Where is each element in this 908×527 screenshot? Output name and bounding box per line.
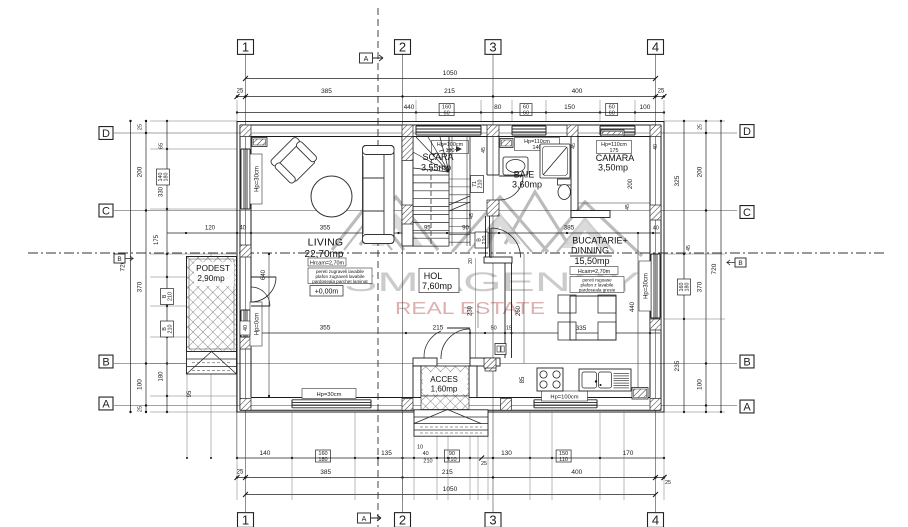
svg-text:CAMARA: CAMARA <box>596 153 635 163</box>
svg-text:B: B <box>738 260 742 267</box>
svg-text:45: 45 <box>625 204 631 210</box>
svg-text:SCARA: SCARA <box>422 152 453 162</box>
svg-text:230: 230 <box>468 305 474 316</box>
svg-text:640: 640 <box>261 269 267 280</box>
svg-text:385: 385 <box>321 88 332 95</box>
svg-text:2: 2 <box>399 513 406 527</box>
svg-text:355: 355 <box>320 225 331 232</box>
svg-text:180: 180 <box>159 371 165 382</box>
svg-text:180: 180 <box>318 457 327 463</box>
svg-text:385: 385 <box>564 225 575 232</box>
svg-text:PODEST: PODEST <box>196 264 230 273</box>
svg-text:215: 215 <box>444 88 455 95</box>
svg-text:4: 4 <box>652 40 659 55</box>
svg-text:60: 60 <box>609 110 615 116</box>
svg-text:40: 40 <box>243 325 249 331</box>
svg-text:85: 85 <box>520 376 526 383</box>
svg-text:Hp=0cm: Hp=0cm <box>254 313 260 336</box>
svg-text:Hcam=2,70m: Hcam=2,70m <box>578 269 611 275</box>
svg-text:210: 210 <box>447 457 456 463</box>
svg-text:3,60mp: 3,60mp <box>512 180 542 190</box>
svg-text:215: 215 <box>433 325 444 332</box>
svg-text:150: 150 <box>564 104 575 111</box>
svg-text:100: 100 <box>137 379 144 390</box>
svg-text:330: 330 <box>159 186 165 197</box>
svg-text:25: 25 <box>665 480 671 486</box>
svg-text:140: 140 <box>259 450 270 457</box>
svg-text:135: 135 <box>381 450 392 457</box>
svg-text:3: 3 <box>489 513 496 527</box>
svg-text:15,50mp: 15,50mp <box>574 256 609 266</box>
svg-text:A: A <box>362 516 367 523</box>
svg-text:A: A <box>743 401 751 413</box>
svg-text:440: 440 <box>404 104 415 111</box>
svg-text:1,60mp: 1,60mp <box>431 385 458 394</box>
svg-text:Hp=30cm: Hp=30cm <box>317 392 342 398</box>
svg-text:175: 175 <box>154 234 160 245</box>
svg-text:325: 325 <box>674 175 681 186</box>
svg-text:40: 40 <box>653 226 659 232</box>
svg-text:25: 25 <box>138 124 144 130</box>
svg-text:720: 720 <box>711 263 718 274</box>
svg-text:BAIE: BAIE <box>514 170 535 180</box>
svg-text:LIVING: LIVING <box>308 237 344 249</box>
svg-text:210: 210 <box>168 325 174 334</box>
svg-text:210: 210 <box>478 180 484 189</box>
svg-text:BUCATARIE+: BUCATARIE+ <box>572 236 627 246</box>
svg-text:HOL: HOL <box>424 271 443 281</box>
svg-text:25: 25 <box>698 124 704 130</box>
svg-text:25: 25 <box>138 406 144 412</box>
svg-text:1: 1 <box>242 513 249 527</box>
svg-text:Hrcam=2,70m: Hrcam=2,70m <box>310 260 345 266</box>
svg-text:B: B <box>102 356 109 368</box>
svg-text:1: 1 <box>242 40 249 55</box>
svg-text:200: 200 <box>628 178 634 189</box>
svg-text:25: 25 <box>481 461 487 467</box>
svg-text:B: B <box>743 356 750 368</box>
svg-text:7,60mp: 7,60mp <box>422 281 452 291</box>
svg-text:Hp=100cm: Hp=100cm <box>550 395 578 401</box>
svg-text:170: 170 <box>623 450 634 457</box>
svg-text:DINNING: DINNING <box>571 246 609 256</box>
svg-text:3,50mp: 3,50mp <box>598 163 628 173</box>
svg-text:3,55mp: 3,55mp <box>421 163 451 173</box>
svg-text:15: 15 <box>506 326 512 332</box>
svg-text:100: 100 <box>639 104 650 111</box>
svg-text:1050: 1050 <box>443 70 458 77</box>
svg-text:45: 45 <box>571 143 577 149</box>
svg-text:180: 180 <box>685 283 691 292</box>
svg-text:385: 385 <box>320 469 331 476</box>
svg-text:4: 4 <box>652 513 659 527</box>
svg-text:ACCES: ACCES <box>430 375 458 384</box>
svg-text:440: 440 <box>630 301 636 312</box>
svg-text:215: 215 <box>442 469 453 476</box>
svg-text:2: 2 <box>399 40 406 55</box>
svg-text:2,90mp: 2,90mp <box>197 274 225 283</box>
svg-text:110: 110 <box>559 457 568 463</box>
svg-text:45: 45 <box>686 245 692 251</box>
svg-text:Hp=30cm: Hp=30cm <box>254 166 260 192</box>
svg-text:+0,00m: +0,00m <box>315 289 339 296</box>
svg-text:25: 25 <box>237 470 244 476</box>
svg-text:235: 235 <box>674 360 681 371</box>
svg-text:A: A <box>102 398 110 410</box>
svg-text:335: 335 <box>576 325 587 332</box>
svg-text:120: 120 <box>205 226 216 232</box>
svg-text:D: D <box>743 126 751 138</box>
svg-text:370: 370 <box>137 281 144 292</box>
svg-text:pardoseala parchet laminat: pardoseala parchet laminat <box>312 279 368 284</box>
svg-text:200: 200 <box>697 166 704 177</box>
svg-text:60: 60 <box>523 110 529 116</box>
svg-text:210: 210 <box>423 459 432 465</box>
svg-text:50: 50 <box>491 326 497 332</box>
svg-text:25: 25 <box>658 89 665 95</box>
svg-text:210: 210 <box>168 292 174 301</box>
svg-text:20: 20 <box>468 258 474 264</box>
svg-text:3: 3 <box>489 40 496 55</box>
svg-text:355: 355 <box>320 325 331 332</box>
svg-text:40: 40 <box>423 451 429 457</box>
svg-text:B: B <box>117 256 121 263</box>
svg-text:400: 400 <box>571 469 582 476</box>
svg-text:370: 370 <box>697 281 704 292</box>
svg-text:100: 100 <box>697 379 704 390</box>
svg-text:A: A <box>364 56 369 63</box>
svg-text:95: 95 <box>187 390 193 397</box>
svg-text:180: 180 <box>164 173 170 182</box>
svg-text:C: C <box>743 207 751 219</box>
svg-text:pardoseala gresie: pardoseala gresie <box>579 287 616 292</box>
svg-text:25: 25 <box>237 89 244 95</box>
svg-text:65: 65 <box>159 143 165 149</box>
svg-text:40: 40 <box>653 144 659 150</box>
svg-text:260: 260 <box>516 305 522 316</box>
svg-text:200: 200 <box>137 166 144 177</box>
svg-text:130: 130 <box>501 450 512 457</box>
svg-text:D: D <box>102 128 110 140</box>
svg-text:1050: 1050 <box>443 486 458 493</box>
svg-text:80: 80 <box>494 104 502 111</box>
svg-text:10: 10 <box>417 445 423 451</box>
svg-text:45: 45 <box>481 147 487 153</box>
svg-text:Hp=30cm: Hp=30cm <box>643 273 649 299</box>
svg-text:60: 60 <box>443 110 449 116</box>
svg-text:400: 400 <box>572 88 583 95</box>
svg-text:C: C <box>102 205 110 217</box>
